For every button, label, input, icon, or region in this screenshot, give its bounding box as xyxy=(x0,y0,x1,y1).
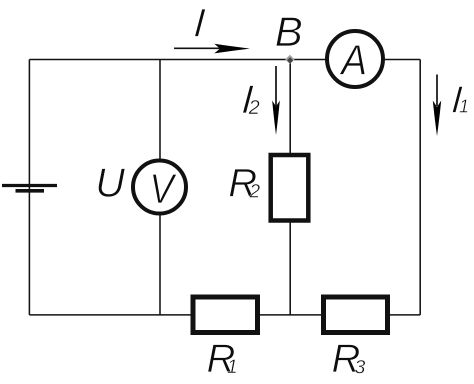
svg-text:V: V xyxy=(150,166,178,213)
svg-text:3: 3 xyxy=(355,357,366,379)
node B marker xyxy=(285,55,294,64)
svg-text:2: 2 xyxy=(249,182,261,203)
svg-text:2: 2 xyxy=(248,97,260,119)
svg-text:U: U xyxy=(95,159,125,205)
resistor R2 body xyxy=(271,155,309,221)
voltmeter V circle xyxy=(133,161,186,214)
svg-text:I: I xyxy=(192,2,206,46)
svg-text:A: A xyxy=(338,36,367,84)
wire: left vertical through battery xyxy=(28,60,30,315)
resistor R3 body xyxy=(324,297,388,333)
arrow: current I1 (downward) xyxy=(433,75,441,137)
svg-text:1: 1 xyxy=(227,357,238,378)
battery source U: long plate xyxy=(2,184,57,187)
battery source U: short plate xyxy=(16,189,45,193)
wire: right vertical xyxy=(419,60,421,315)
arrow: current I (rightward) xyxy=(174,44,250,54)
svg-text:B: B xyxy=(275,8,303,55)
svg-text:1: 1 xyxy=(459,97,469,117)
wire: R2 branch vertical from node B to bottom wire xyxy=(289,60,291,315)
arrow: current I2 (downward) xyxy=(272,66,280,135)
ammeter A circle xyxy=(327,31,383,87)
wire: voltmeter branch vertical xyxy=(159,60,161,315)
wire: bottom horizontal xyxy=(29,314,420,316)
wire: top horizontal from left corner through node B to right corner xyxy=(29,59,420,61)
resistor R1 body xyxy=(193,297,258,333)
